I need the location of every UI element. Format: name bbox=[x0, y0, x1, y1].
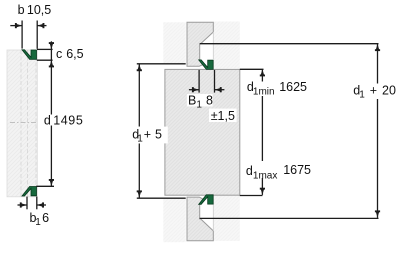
svg-text:c: c bbox=[56, 47, 62, 61]
svg-text:d: d bbox=[44, 114, 51, 128]
svg-text:b: b bbox=[18, 3, 25, 17]
svg-text:1495: 1495 bbox=[53, 114, 83, 128]
svg-text:1: 1 bbox=[359, 89, 365, 100]
svg-text:8: 8 bbox=[206, 93, 213, 107]
svg-text:1: 1 bbox=[196, 99, 202, 110]
svg-text:+: + bbox=[370, 83, 377, 97]
svg-text:6,5: 6,5 bbox=[66, 47, 83, 61]
svg-text:1625: 1625 bbox=[279, 80, 307, 94]
svg-text:1: 1 bbox=[35, 217, 41, 228]
svg-text:10,5: 10,5 bbox=[27, 3, 51, 17]
svg-text:±1,5: ±1,5 bbox=[211, 109, 235, 123]
svg-text:1min: 1min bbox=[253, 86, 275, 97]
svg-text:+: + bbox=[144, 127, 151, 141]
svg-text:1675: 1675 bbox=[283, 163, 311, 177]
svg-text:5: 5 bbox=[155, 127, 162, 141]
svg-text:1max: 1max bbox=[253, 170, 277, 181]
svg-text:1: 1 bbox=[137, 133, 143, 144]
svg-text:20: 20 bbox=[382, 83, 396, 97]
svg-text:d: d bbox=[246, 164, 253, 178]
svg-text:6: 6 bbox=[42, 211, 49, 225]
svg-text:B: B bbox=[188, 93, 196, 107]
